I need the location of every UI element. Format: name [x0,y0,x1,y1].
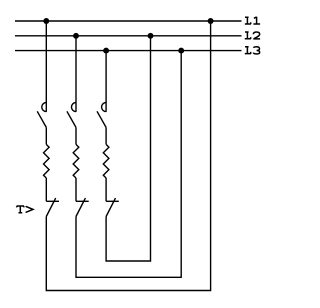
wire: pole 2 return loop to L3 [76,51,181,278]
wire: L1 bus [15,20,242,22]
label T> thermal trip [17,206,33,213]
label L1 [245,17,260,24]
junction: L2 to pole 2 [73,33,79,39]
wire: pole 1 return loop to L1 [46,21,210,291]
contactor contact K1 pole 2, fixed contact hook [71,103,76,112]
junction: L1 to pole 1 [43,18,49,24]
wire: heater pole 3 to trip contact pole 3 [105,178,107,201]
contactor contact K1 pole 3, moving blade [97,111,106,127]
junction: L2 to pole 3 return [148,33,154,39]
thermal trip NC contact pole 1, seat [46,200,59,202]
wire: heater pole 2 to trip contact pole 2 [75,178,77,201]
contactor contact K1 pole 1, moving blade [37,111,46,127]
contactor contact K1 pole 2, moving blade [67,111,76,127]
contactor contact K1 pole 1, fixed contact hook [42,103,47,112]
wire: heater pole 1 to trip contact pole 1 [45,178,47,201]
thermal trip NC contact pole 2, blade [76,198,85,216]
wire: L1 down to contactor pole 1 [45,21,47,112]
wire: L3 bus [15,50,242,52]
junction: L3 to pole 3 [103,48,109,54]
wire: contactor pole 1 to heater pole 1 [45,127,47,144]
thermal trip NC contact pole 3, blade [106,198,115,216]
thermal overload heater F1 pole 1 [44,144,50,178]
label L2 [245,32,260,39]
wire: contactor pole 2 to heater pole 2 [75,127,77,144]
thermal trip NC contact pole 1, blade [46,198,55,216]
junction: L1 to pole 1 return [208,18,214,24]
thermal overload heater F1 pole 3 [103,144,109,178]
wire: L2 down to contactor pole 2 [75,36,77,112]
wire: L3 down to contactor pole 3 [105,51,107,112]
thermal overload heater F1 pole 2 [73,144,79,178]
junction: L3 to pole 2 return [178,48,184,54]
thermal trip NC contact pole 2, seat [76,200,89,202]
wire: pole 3 return loop to L2 [106,36,150,261]
wire: L2 bus [15,35,242,37]
wire: contactor pole 3 to heater pole 3 [105,127,107,144]
thermal trip NC contact pole 3, seat [106,200,119,202]
contactor contact K1 pole 3, fixed contact hook [102,103,107,112]
label L3 [245,47,260,54]
